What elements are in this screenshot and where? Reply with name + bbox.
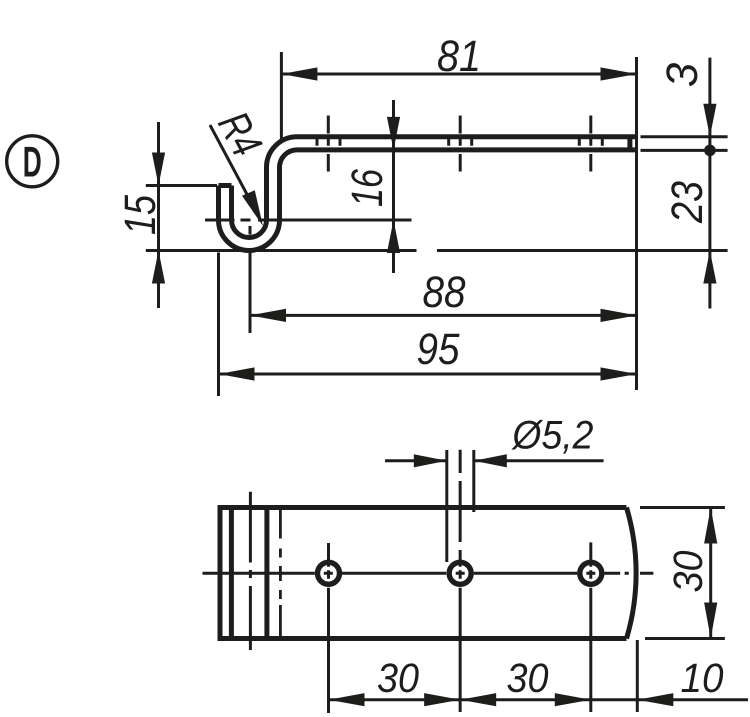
- svg-text:88: 88: [423, 268, 466, 317]
- svg-text:30: 30: [507, 655, 549, 701]
- dimension 3: [641, 58, 728, 309]
- svg-text:Ø5,2: Ø5,2: [511, 414, 594, 458]
- svg-text:23: 23: [663, 181, 712, 224]
- svg-text:30: 30: [377, 655, 419, 701]
- hole H1 centre lines: [327, 543, 330, 713]
- side view part outline (J-hook profile): [219, 135, 637, 250]
- svg-text:15: 15: [116, 195, 165, 235]
- plan view part outline: [220, 508, 636, 639]
- hole H3 centre lines: [589, 542, 592, 712]
- dimension 95: [219, 253, 637, 397]
- dimension Ø5,2: [385, 450, 604, 562]
- hole H2: [449, 562, 471, 584]
- svg-text:3: 3: [658, 62, 707, 87]
- dimension 23: [703, 251, 716, 284]
- hook arc centre lines (side view): [205, 220, 412, 333]
- dimension 81: [281, 52, 636, 390]
- dimension 15: [146, 122, 728, 308]
- dimension 30 (plate width): [640, 508, 725, 639]
- hidden bend line (plan view): [279, 510, 282, 637]
- hole H3: [580, 562, 602, 584]
- hole H1: [318, 562, 340, 584]
- view label D: [7, 136, 58, 187]
- hook fold centre line (plan view): [249, 492, 252, 650]
- plate horizontal centre line: [203, 572, 654, 575]
- dimension 16: [392, 100, 395, 273]
- svg-text:81: 81: [437, 32, 481, 81]
- bottom dimension chain 30 30 10: [329, 640, 749, 712]
- svg-text:95: 95: [417, 325, 460, 374]
- svg-text:D: D: [23, 139, 42, 187]
- svg-text:30: 30: [665, 550, 711, 592]
- hole H2 centre lines: [459, 450, 462, 712]
- svg-text:10: 10: [681, 655, 724, 701]
- dimension 88: [250, 314, 637, 317]
- hole centre marks on side view: [317, 116, 602, 172]
- svg-text:16: 16: [343, 169, 392, 207]
- radius leader R4: [210, 125, 250, 200]
